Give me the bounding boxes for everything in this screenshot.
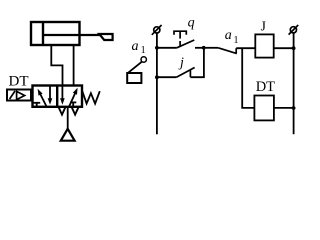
right position: vertical flow arrow: [60, 86, 65, 105]
wire q branch left: [157, 47, 177, 49]
pipe right (cylinder rod end to valve port B): [73, 45, 75, 86]
contact j fixed terminal tick: [189, 70, 191, 77]
junction dot left rail / j branch: [155, 75, 159, 79]
pushbutton q movable arm: [177, 40, 195, 48]
left position: vertical flow arrow: [48, 86, 53, 105]
svg-text:a: a: [132, 39, 139, 54]
supply line below valve: [67, 107, 69, 129]
svg-text:DT: DT: [256, 79, 275, 95]
piston rod: [43, 34, 99, 36]
left position: diagonal flow arrow: [38, 89, 47, 106]
cam dog on rod end: [99, 34, 112, 40]
right position: blocked port T: [70, 102, 76, 106]
relay coil J box: [255, 34, 273, 57]
limit contact a1 movable arm (NC): [218, 48, 237, 54]
junction dot left rail / q branch: [155, 46, 159, 50]
solenoid coil DT box: [254, 96, 274, 121]
svg-text:1: 1: [234, 35, 239, 46]
exhaust port V left: [59, 108, 65, 115]
junction dot right rail / DT: [292, 106, 296, 110]
cylinder body: [31, 22, 80, 45]
relay contact j movable arm: [176, 68, 194, 78]
svg-text:1: 1: [141, 45, 146, 56]
air source triangle: [61, 129, 75, 141]
pushbutton q cap: [174, 31, 186, 46]
spring W at valve right: [82, 91, 100, 103]
limit switch a1 body box: [127, 73, 141, 83]
junction dot right rail / J: [292, 46, 296, 50]
exhaust port V right: [72, 108, 78, 115]
valve position divider: [56, 86, 58, 107]
wire j branch left: [157, 76, 177, 78]
wire coil DT to right rail: [274, 107, 294, 109]
contact a1 fixed terminal tick: [235, 48, 237, 53]
solenoid diagonal stroke: [10, 91, 15, 99]
wire a1 to coil J: [236, 47, 255, 49]
node dot after q/j: [202, 46, 206, 50]
svg-text:DT: DT: [9, 73, 29, 89]
wire q branch right: [195, 47, 204, 49]
pipe left (cylinder cap end to valve port A): [51, 45, 62, 86]
svg-text:a: a: [225, 28, 232, 43]
svg-text:j: j: [178, 56, 184, 71]
limit switch a1 lever: [128, 62, 142, 73]
wire coil J to right rail: [274, 47, 294, 49]
wire j branch right: [190, 48, 204, 77]
limit switch a1 roller: [141, 57, 146, 62]
svg-text:J: J: [261, 19, 266, 34]
solenoid triangle: [17, 91, 25, 99]
branch wire down to coil DT: [242, 48, 254, 108]
right position: diagonal flow arrow: [69, 88, 77, 107]
solenoid DT box: [7, 90, 31, 101]
right supply terminal circle-slash: [289, 25, 299, 35]
svg-text:q: q: [188, 16, 195, 31]
right rail wire: [293, 33, 295, 134]
left rail wire: [156, 33, 158, 134]
wire node to a1 contact: [204, 47, 219, 49]
valve body (two position boxes): [33, 86, 83, 107]
left position: blocked port T: [33, 103, 40, 107]
piston: [42, 22, 44, 45]
left supply terminal (phase) circle-slash: [152, 25, 162, 35]
